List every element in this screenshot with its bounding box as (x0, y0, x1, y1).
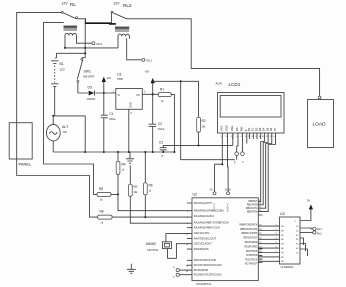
svg-text:1N4007: 1N4007 (87, 97, 97, 101)
svg-text:D1: D1 (251, 127, 255, 131)
svg-text:D5: D5 (265, 127, 269, 131)
driver U3 inner pin labels (281, 221, 299, 264)
svg-text:2: 2 (187, 211, 189, 213)
svg-text:14: 14 (273, 136, 276, 138)
svg-text:1k: 1k (101, 222, 104, 225)
wire: R2 bottom (198, 132, 200, 145)
wire: battery top connection (56, 53, 85, 58)
svg-text:U2: U2 (193, 193, 198, 197)
svg-text:4B: 4B (281, 239, 284, 241)
svg-text:RA3/AN3/VREF+/C1IN: RA3/AN3/VREF+/C1IN (194, 226, 220, 230)
svg-text:12: 12 (266, 136, 269, 138)
svg-text:13: 13 (270, 136, 273, 138)
svg-text:U3: U3 (280, 212, 285, 216)
svg-text:470uF: 470uF (158, 128, 165, 131)
svg-text:5C: 5C (296, 244, 299, 246)
svg-text:C2: C2 (158, 122, 162, 126)
resistor R7 (129, 184, 133, 196)
ground rail (53, 151, 174, 153)
svg-text:RL2: RL2 (123, 3, 132, 8)
svg-text:C1: C1 (110, 112, 114, 116)
svg-text:RD1/PSP6D: RD1/PSP6D (244, 246, 257, 248)
svg-text:26: 26 (186, 266, 189, 268)
terminal RX circle on U2 (176, 269, 179, 272)
svg-text:D4: D4 (262, 127, 266, 131)
svg-text:RC1/T1OSI/CCP2/CLN5: RC1/T1OSI/CCP2/CLN5 (194, 263, 222, 267)
svg-text:C: C (294, 221, 296, 223)
wire: battery bus riser x85 (84, 19, 86, 58)
wire: ALT bottom to ground rail (52, 141, 54, 152)
svg-text:RL1: RL1 (147, 58, 153, 62)
svg-text:5V: 5V (307, 199, 310, 203)
svg-text:RA5/AN4/SS: RA5/AN4/SS (194, 247, 209, 251)
wire: +5V rail to R2 (153, 81, 199, 117)
capacitor C2 (152, 94, 154, 124)
svg-text:R8: R8 (100, 210, 104, 214)
wire: LCD VSS to PIC top terminal (215, 139, 223, 192)
svg-text:34: 34 (259, 203, 261, 205)
wire: R5 node to RA0 (111, 194, 192, 210)
svg-text:11,32: 11,32 (225, 188, 232, 192)
transformer T2 primary feed (thick) (109, 23, 116, 25)
battery B1 (51, 58, 58, 116)
wire: U2 to U3 pin 5B (258, 243, 279, 245)
svg-text:ULN2003A: ULN2003A (281, 265, 294, 269)
svg-text:D3: D3 (258, 127, 262, 131)
resistor R6 (144, 183, 148, 195)
power terminal 12V arrow at C1 node (103, 92, 105, 94)
wire: R1 to ground rail (171, 95, 174, 152)
ground symbol (floating, near crystal) (127, 264, 136, 274)
lcd pin numbers (221, 136, 277, 138)
svg-text:7C: 7C (296, 252, 299, 254)
svg-text:+5V: +5V (145, 70, 150, 74)
svg-text:5V: 5V (235, 160, 237, 163)
panel PANEL box (9, 123, 32, 159)
svg-text:8B: 8B (281, 257, 284, 259)
driver U3 box (280, 217, 301, 264)
terminal RL1 output circle (300, 227, 313, 230)
svg-text:D3: D3 (88, 86, 92, 90)
svg-text:B1: B1 (60, 62, 64, 66)
svg-text:PANEL: PANEL (19, 162, 33, 167)
svg-text:RB3/PGM: RB3/PGM (247, 211, 258, 213)
svg-text:VSS: VSS (219, 126, 223, 132)
svg-text:R2: R2 (202, 119, 206, 123)
lcd pin stubs (222, 133, 275, 139)
wire: U2 to U3 pin 3B (258, 234, 279, 236)
svg-text:16MHZ: 16MHZ (146, 242, 157, 246)
ground symbol (rail) (126, 152, 134, 163)
svg-text:10: 10 (259, 136, 262, 138)
svg-text:D: D (227, 210, 229, 213)
wire: mains/panel left riser through PANEL to R8 (17, 12, 98, 217)
svg-text:4x: 4x (173, 277, 175, 279)
microcontroller U2 left pin numbers (186, 211, 189, 273)
microcontroller U2 left pin rows (194, 201, 229, 277)
transformer T2 core/primary bars (115, 27, 129, 29)
wire: LCD D4 to U2 RB0 (258, 139, 264, 201)
svg-text:33: 33 (259, 200, 261, 202)
svg-text:D0: D0 (247, 127, 251, 131)
terminal RL1 (T2 secondary out) (142, 58, 145, 61)
svg-text:3x: 3x (173, 267, 175, 269)
microcontroller U2 right pin stubs (258, 215, 262, 263)
svg-text:12V: 12V (60, 68, 65, 72)
wire: U2 to U3 pin 6B (258, 247, 279, 249)
svg-text:RB7/DSC/DT: RB7/DSC/DT (243, 238, 257, 240)
terminal pin 20 on U2 top (213, 192, 216, 195)
svg-text:R6: R6 (149, 184, 153, 188)
wire: LCD D5 to U2 RB1 (258, 139, 268, 205)
svg-text:RL: RL (70, 2, 76, 7)
wire: OSC1 to crystal (166, 234, 192, 242)
svg-text:25: 25 (186, 271, 189, 273)
svg-text:10k: 10k (202, 126, 207, 129)
wire: T1 primary feed from left riser (44, 22, 98, 194)
transformer T2 secondary legs (118, 38, 142, 60)
wire: U2 to U3 pin GND (258, 256, 279, 258)
svg-text:6C: 6C (296, 248, 299, 250)
wire: secondary common rail y48 (65, 47, 119, 49)
svg-text:SW-SPST: SW-SPST (83, 75, 95, 79)
svg-text:RA1/AN1/C12IN1: RA1/AN1/C12IN1 (194, 214, 215, 218)
terminal RL2 (T1 secondary out) (92, 42, 95, 45)
svg-text:1C: 1C (296, 226, 299, 228)
svg-text:RL2: RL2 (317, 232, 322, 236)
svg-text:R7: R7 (134, 185, 138, 189)
resistor R1 (158, 93, 171, 97)
svg-text:SW1: SW1 (84, 70, 91, 74)
wire: U2 to U3 pin 4B (258, 238, 279, 240)
crystal X1 (163, 242, 172, 249)
svg-text:RA4/T0CKI/C1OUT: RA4/T0CKI/C1OUT (194, 236, 217, 240)
svg-text:D6: D6 (269, 127, 273, 131)
svg-text:12V: 12V (107, 76, 112, 80)
svg-text:RS: RS (235, 127, 239, 131)
wire: LCD VDD drop to U2 top terminal (227, 139, 230, 192)
svg-text:1k: 1k (100, 199, 103, 202)
svg-text:RD7/PSC8: RD7/PSC8 (246, 251, 258, 253)
svg-text:VI: VI (118, 93, 121, 97)
svg-text:1u: 1u (161, 155, 164, 158)
svg-text:12V: 12V (114, 2, 121, 6)
svg-text:9B: 9B (281, 261, 284, 263)
wire: OSC2 loop to crystal (168, 244, 193, 259)
svg-text:G: G (243, 161, 245, 163)
svg-text:LCD1: LCD1 (229, 82, 241, 87)
terminal RW circle (241, 152, 245, 156)
svg-text:RC6/TX/CK: RC6/TX/CK (245, 260, 258, 262)
svg-text:RA2/AN2/VREF-/CVREF/C2IN: RA2/AN2/VREF-/CVREF/C2IN (194, 220, 229, 224)
wire: R8 to RA1 (112, 216, 192, 218)
svg-text:OSC2/CLKOUT: OSC2/CLKOUT (194, 242, 212, 246)
svg-text:VDD: VDD (225, 125, 229, 131)
transformer T1 secondary legs (65, 38, 92, 48)
svg-text:2: 2 (131, 112, 133, 115)
svg-text:4C: 4C (296, 239, 299, 241)
resistor R8 (98, 215, 112, 219)
diode D3 (89, 91, 95, 96)
wire: riser to RL2 pole (110, 13, 112, 23)
svg-text:1k: 1k (149, 190, 152, 193)
svg-text:RB4/P DES/PIC4: RB4/P DES/PIC4 (239, 224, 258, 226)
wire: RL output jog down (77, 19, 85, 23)
svg-text:1k: 1k (161, 100, 164, 103)
wire: U3 unused right stubs (300, 238, 308, 256)
svg-text:RB1/PGM: RB1/PGM (247, 205, 258, 207)
svg-text:1B: 1B (281, 226, 284, 228)
power terminal 5V arrow for U3 (300, 209, 311, 221)
svg-text:R1: R1 (160, 88, 164, 92)
wire: LCD D7 to U2 RB3 (258, 139, 275, 212)
switch SW1 (82, 57, 85, 59)
svg-text:2B: 2B (281, 230, 284, 232)
svg-text:CRYSTAL: CRYSTAL (147, 248, 159, 252)
microcontroller U2 right pin numbers (259, 200, 277, 262)
svg-text:RA0/AN0/ULPWU/C12IN0: RA0/AN0/ULPWU/C12IN0 (194, 209, 224, 213)
wire: DC input rail to U1 (78, 92, 116, 94)
svg-text:1000u: 1000u (109, 118, 116, 121)
svg-text:5B: 5B (281, 244, 284, 246)
svg-text:1k: 1k (122, 169, 125, 172)
power terminal +5V arrow (152, 83, 154, 94)
microcontroller U2 box (192, 198, 258, 281)
svg-text:3: 3 (144, 91, 146, 94)
svg-text:ALT: ALT (62, 125, 69, 129)
svg-text:7805: 7805 (117, 77, 123, 81)
wire: LCD E stub (246, 139, 248, 144)
svg-text:R4: R4 (122, 163, 126, 167)
alternator ALT (52, 116, 54, 125)
wire: thick bus RL to RL2 (85, 22, 112, 24)
svg-text:RC2/NAP1B: RC2/NAP1B (194, 268, 208, 272)
load LOAD box (308, 100, 334, 148)
wire: R7 bottom to RA2 (130, 166, 192, 224)
wire: RL2 output to LOAD (127, 19, 320, 97)
wire: U2 to U3 pin 1B (258, 225, 279, 227)
microcontroller U2 left pin stubs (187, 203, 192, 265)
wire: U1 ground lead (128, 109, 130, 152)
capacitor C1 (103, 93, 105, 115)
svg-text:14: 14 (186, 244, 189, 246)
svg-text:PIC16F877A: PIC16F877A (197, 282, 212, 286)
relay contact RL2 (switch blade) (112, 12, 127, 18)
transformer T1 secondary coil (65, 33, 76, 38)
wire: U2 to U3 pin 7B (258, 252, 279, 254)
svg-text:RC5TRO8: RC5TRO8 (246, 255, 258, 257)
svg-text:RB6/DCC/PIP6: RB6/DCC/PIP6 (241, 233, 258, 235)
svg-text:LOAD: LOAD (313, 122, 327, 128)
svg-text:D7: D7 (273, 127, 277, 131)
svg-text:RC7/RX/DT: RC7/RX/DT (245, 263, 258, 265)
svg-text:VEE: VEE (230, 126, 234, 132)
wire: ALT top node to ground riser (53, 116, 85, 152)
svg-text:MCLR/Vpp/THV: MCLR/Vpp/THV (194, 201, 213, 205)
svg-text:3B: 3B (281, 235, 284, 237)
svg-text:OSC1/CLKIN: OSC1/CLKIN (194, 231, 209, 235)
terminal TX circle on U2 (176, 273, 179, 276)
svg-text:2C: 2C (296, 230, 299, 232)
svg-text:6B: 6B (281, 248, 284, 250)
wire: +5V drop to LCD terminals (181, 81, 235, 159)
terminal pin 11,32 on U2 top (227, 192, 230, 195)
wire: VEE/contrast line y145.4 (163, 134, 233, 145)
svg-text:AOK.: AOK. (216, 82, 223, 86)
svg-text:RC3/SCK/T1OF/CCCN2: RC3/SCK/T1OF/CCCN2 (194, 273, 222, 277)
regulator U1 7805 (116, 89, 143, 110)
relay contact RL (switch blade) (62, 12, 76, 18)
svg-text:RD0/CIRDE: RD0/CIRDE (245, 242, 258, 244)
svg-text:VO: VO (136, 93, 140, 97)
load terminal pin (318, 96, 321, 99)
resistor R2 (197, 117, 201, 132)
wire: U1 output node (142, 93, 158, 95)
wire: LCD D6 to U2 RB2 (258, 139, 272, 208)
terminal RL2 output circle (300, 231, 313, 233)
svg-text:RL1: RL1 (317, 227, 322, 231)
svg-text:7B: 7B (281, 252, 284, 254)
terminal RS circle (235, 152, 239, 156)
lcd pin name labels (vertical) (219, 125, 276, 131)
svg-text:RB2/CCP1: RB2/CCP1 (246, 208, 258, 210)
svg-text:RB5/PIC5/CCP2: RB5/PIC5/CCP2 (240, 229, 258, 231)
svg-text:RC0/T1OSO/T1CKI: RC0/T1OSO/T1CKI (194, 258, 217, 262)
svg-text:RL2: RL2 (97, 42, 103, 46)
lcd LCD1 (218, 93, 285, 134)
svg-text:U1: U1 (117, 73, 122, 77)
svg-text:12V: 12V (62, 2, 69, 6)
wire: R6 leads (144, 152, 146, 217)
svg-text:36: 36 (259, 210, 261, 212)
svg-text:D2: D2 (254, 127, 258, 131)
resistor R5 (97, 192, 111, 196)
microcontroller U2 right pin rows (239, 201, 258, 265)
svg-text:C3: C3 (159, 141, 163, 145)
svg-text:RB0/INT: RB0/INT (248, 201, 258, 203)
svg-text:RW: RW (239, 126, 243, 131)
svg-text:GND: GND (129, 102, 133, 108)
svg-text:35: 35 (259, 207, 261, 209)
svg-text:3C: 3C (296, 235, 299, 237)
svg-text:12V: 12V (63, 130, 68, 134)
wire: U2 to U3 pin 2B (258, 230, 279, 232)
resistor R4 (116, 161, 120, 174)
svg-text:10k: 10k (134, 191, 139, 194)
svg-text:R5: R5 (99, 187, 103, 191)
svg-text:20: 20 (210, 188, 213, 192)
wire: U2 to U3 pin E (258, 260, 279, 262)
transformer T2 secondary coil (118, 34, 129, 39)
wire: R4 leads (117, 152, 119, 194)
transformer T1 core/primary bars (64, 26, 78, 28)
